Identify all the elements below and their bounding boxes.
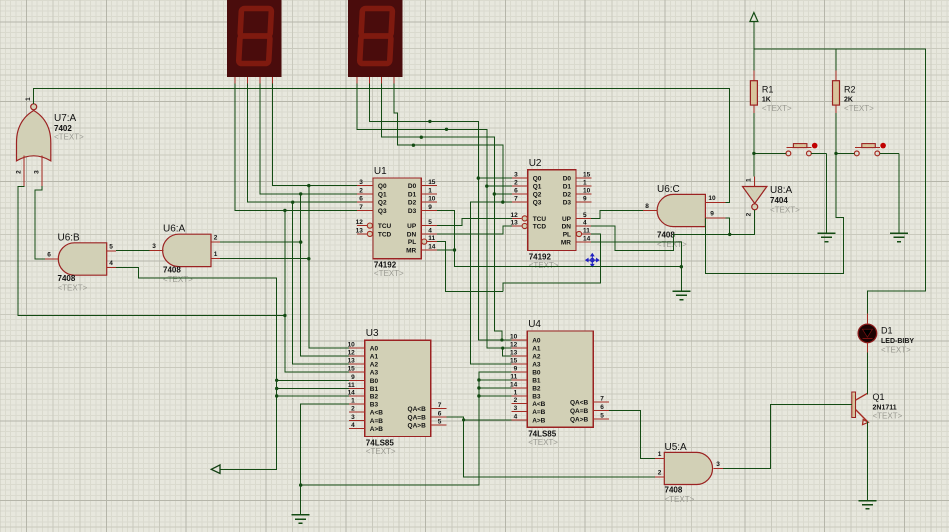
svg-text:A0: A0 [532, 338, 541, 345]
svg-text:U6:C: U6:C [657, 184, 680, 195]
svg-text:B0: B0 [532, 370, 541, 377]
svg-text:2: 2 [746, 212, 753, 216]
svg-text:DN: DN [562, 224, 572, 231]
svg-text:4: 4 [583, 220, 587, 227]
svg-text:1: 1 [351, 398, 355, 405]
wire R1 net to U8:A pin1 [753, 113, 755, 176]
svg-text:A>B: A>B [370, 426, 383, 433]
svg-text:6: 6 [514, 188, 518, 195]
svg-text:13: 13 [510, 220, 518, 227]
svg-text:7408: 7408 [665, 486, 683, 495]
svg-text:UP: UP [407, 223, 417, 230]
wire U6:A pin1 to Q0 net [220, 258, 309, 260]
svg-text:5: 5 [109, 243, 113, 250]
svg-text:4: 4 [514, 413, 518, 420]
svg-text:D1: D1 [881, 326, 893, 336]
AND gate U6:A (7408) [150, 224, 221, 284]
AND gate U6:C (7408) [643, 184, 726, 249]
ground (U3 B3 net) [292, 515, 310, 523]
svg-text:15: 15 [510, 358, 518, 365]
transistor Q1 (2N1711) [852, 353, 903, 501]
svg-text:D3: D3 [408, 208, 417, 215]
wire U1 MR join [437, 249, 455, 251]
svg-text:3: 3 [514, 172, 518, 179]
svg-text:15: 15 [583, 172, 591, 179]
junction dot U6:B out net [0, 0, 1, 1]
svg-text:U7:A: U7:A [54, 113, 77, 124]
svg-text:<TEXT>: <TEXT> [665, 495, 695, 504]
wire U7:A pin3 to U6:B out [35, 186, 45, 259]
svg-text:Q0: Q0 [378, 183, 387, 190]
wire SW2 to ground [880, 152, 899, 154]
svg-text:Q1: Q1 [873, 392, 885, 402]
wire DISP2 p3 to U2 Q2/U4 A0 [382, 84, 502, 341]
wire Q1 branch to U3 A1 [301, 194, 349, 356]
wire ground trunk to U4 B bus [301, 372, 512, 485]
svg-text:4: 4 [351, 422, 355, 429]
svg-text:2: 2 [351, 406, 355, 413]
wire DISP2 p2 to U2 Q0/U4 A2 [369, 84, 511, 341]
svg-text:B2: B2 [532, 386, 541, 393]
svg-text:MR: MR [406, 248, 416, 255]
svg-text:14: 14 [428, 244, 436, 251]
svg-text:1: 1 [746, 178, 753, 182]
7-segment display DISP1 [227, 0, 282, 77]
svg-text:<TEXT>: <TEXT> [54, 133, 84, 142]
counter U2 (74192) [510, 158, 591, 270]
wire DISP1 p3 to U1 Q2 [248, 84, 358, 203]
svg-text:TCU: TCU [533, 216, 547, 223]
svg-text:<TEXT>: <TEXT> [844, 104, 874, 113]
svg-text:A<B: A<B [370, 410, 383, 417]
svg-text:Q2: Q2 [378, 200, 387, 207]
svg-text:QA=B: QA=B [570, 408, 589, 415]
push-button switch SW1 [786, 143, 818, 156]
svg-text:QA>B: QA>B [408, 423, 427, 430]
svg-text:1K: 1K [762, 97, 771, 104]
svg-text:<TEXT>: <TEXT> [762, 104, 792, 113]
svg-text:QA=B: QA=B [408, 414, 427, 421]
svg-text:12: 12 [356, 219, 364, 226]
wire DISP1 p1 to U1 Q0 [272, 84, 357, 186]
svg-text:B3: B3 [532, 394, 541, 401]
svg-text:2N1711: 2N1711 [873, 405, 897, 412]
svg-text:5: 5 [428, 219, 432, 226]
svg-text:9: 9 [583, 196, 587, 203]
svg-text:4: 4 [109, 260, 113, 267]
svg-text:A2: A2 [532, 353, 541, 360]
svg-text:PL: PL [563, 232, 571, 239]
svg-text:7: 7 [438, 402, 442, 409]
wire U2 TCD to U1 DN [437, 226, 512, 234]
7-segment display DISP2 [348, 0, 403, 77]
svg-text:A=B: A=B [532, 409, 545, 416]
wire U2 Q3 row + left ext to U4 A3 [471, 202, 512, 364]
svg-text:1: 1 [214, 251, 218, 258]
wire U3 B0 feed [277, 379, 349, 381]
wire Q0 branch to U3 A0 [309, 186, 349, 348]
display DISP1 pin stubs [235, 77, 272, 84]
svg-text:<TEXT>: <TEXT> [58, 284, 88, 293]
svg-text:D0: D0 [563, 176, 572, 183]
svg-text:LED-BIBY: LED-BIBY [881, 338, 914, 345]
svg-text:A1: A1 [370, 353, 379, 360]
LED D1 (LED-BIBY) [858, 314, 914, 355]
wire VCC to R2 [835, 49, 837, 71]
svg-text:<TEXT>: <TEXT> [163, 275, 193, 284]
wire U2 MR to ground [591, 242, 682, 291]
svg-text:TCD: TCD [533, 224, 547, 231]
svg-text:A0: A0 [370, 345, 379, 352]
svg-text:12: 12 [348, 349, 356, 356]
svg-text:<TEXT>: <TEXT> [873, 412, 903, 421]
svg-text:13: 13 [356, 227, 364, 234]
svg-text:5: 5 [438, 419, 442, 426]
svg-text:8: 8 [645, 203, 649, 210]
svg-text:A>B: A>B [532, 417, 545, 424]
svg-text:11: 11 [510, 374, 517, 381]
junction dots U2 Q pins [477, 176, 505, 203]
svg-text:A3: A3 [370, 370, 379, 377]
svg-text:10: 10 [583, 188, 591, 195]
wire U3 B1 feed [277, 388, 349, 390]
svg-text:14: 14 [510, 382, 518, 389]
svg-text:7408: 7408 [657, 231, 675, 240]
svg-text:11: 11 [428, 235, 435, 242]
wire R2 net down to pin9 column [705, 113, 843, 274]
wire U1 D3+MR to ground trunk [437, 211, 681, 267]
svg-text:<TEXT>: <TEXT> [528, 438, 558, 447]
junction dot trunk [299, 483, 302, 486]
power terminal (VCC arrow) [750, 13, 758, 49]
svg-text:Q2: Q2 [533, 192, 542, 199]
wire U3 QA=B to U5 pin2 [447, 417, 656, 477]
svg-text:3: 3 [716, 461, 720, 468]
svg-text:15: 15 [428, 179, 436, 186]
push-button switch SW2 [854, 143, 886, 156]
svg-text:Q3: Q3 [533, 200, 542, 207]
svg-text:Q1: Q1 [533, 184, 542, 191]
svg-text:2: 2 [359, 187, 363, 194]
svg-text:12: 12 [510, 342, 518, 349]
svg-text:5: 5 [583, 212, 587, 219]
svg-text:7408: 7408 [58, 274, 76, 283]
junction dots U6:A inputs [299, 240, 310, 260]
svg-text:2: 2 [514, 180, 518, 187]
wire U3 B3 to ground [301, 404, 349, 515]
svg-text:6: 6 [600, 404, 604, 411]
wire U2 Q1 pin stub link [487, 185, 512, 187]
svg-text:D1: D1 [408, 191, 417, 198]
svg-text:7: 7 [359, 204, 363, 211]
svg-text:R2: R2 [844, 85, 856, 95]
svg-text:<TEXT>: <TEXT> [366, 447, 396, 456]
svg-text:7: 7 [600, 395, 604, 402]
svg-text:Q3: Q3 [378, 208, 387, 215]
svg-text:Q1: Q1 [378, 191, 387, 198]
wire U2 Q2 pin stub link [494, 193, 512, 195]
wire U6:A pin2 to Q1 net [220, 241, 301, 243]
counter U1 (74192) [356, 166, 437, 278]
wire R1 junction to SW1 [754, 152, 786, 154]
svg-text:7404: 7404 [770, 196, 788, 205]
svg-text:2: 2 [514, 397, 518, 404]
wire DISP1 p4 to U1 Q3 [235, 84, 357, 211]
svg-text:R1: R1 [762, 85, 774, 95]
svg-text:3: 3 [152, 243, 156, 250]
svg-text:1: 1 [428, 187, 432, 194]
resistor R2 2K [833, 71, 875, 114]
svg-text:D3: D3 [563, 200, 572, 207]
wire VCC rail [754, 49, 926, 314]
svg-text:A3: A3 [532, 362, 541, 369]
svg-text:A2: A2 [370, 362, 379, 369]
svg-text:A=B: A=B [370, 418, 383, 425]
resistor R1 1K [750, 71, 792, 114]
svg-text:7408: 7408 [163, 265, 181, 274]
svg-text:U3: U3 [366, 328, 379, 339]
svg-text:6: 6 [438, 410, 442, 417]
junction dot U1 MR [453, 248, 456, 251]
svg-text:12: 12 [510, 212, 518, 219]
svg-text:D2: D2 [563, 192, 572, 199]
wire U6:C pin9 to U8 net [726, 218, 730, 235]
NOR gate U7:A (7402) [16, 96, 85, 186]
svg-text:9: 9 [514, 366, 518, 373]
svg-text:2K: 2K [844, 97, 853, 104]
inverter U8:A (7404) [743, 177, 801, 217]
svg-text:9: 9 [351, 374, 355, 381]
svg-text:3: 3 [33, 170, 40, 174]
wire SW1 to ground [811, 152, 827, 154]
junction dots U1 Q branches [283, 184, 310, 212]
svg-text:1: 1 [658, 451, 662, 458]
svg-text:U1: U1 [374, 166, 387, 177]
svg-text:5: 5 [600, 413, 604, 420]
wire U7:A out to U6:C pin10 (top rail) [34, 89, 730, 203]
svg-text:U2: U2 [529, 158, 542, 169]
display DISP2 pin stubs [357, 77, 394, 84]
wire U4 B1 feed [479, 379, 512, 381]
svg-text:15: 15 [348, 366, 356, 373]
svg-text:QA>B: QA>B [570, 417, 589, 424]
ground (switch SW1) [818, 153, 836, 241]
wire U8:A out to U2 DN [591, 210, 755, 250]
svg-text:MR: MR [561, 239, 571, 246]
svg-text:3: 3 [359, 179, 363, 186]
svg-text:2: 2 [214, 235, 218, 242]
svg-text:2: 2 [658, 469, 662, 476]
svg-text:UP: UP [562, 216, 572, 223]
junction dots U4 B bus [477, 378, 480, 397]
wire VCC to R1 [753, 49, 755, 71]
svg-text:QA<B: QA<B [570, 399, 589, 406]
svg-text:7: 7 [514, 196, 518, 203]
ground (switch SW2) [890, 153, 908, 241]
svg-text:10: 10 [348, 341, 356, 348]
svg-text:B2: B2 [370, 394, 379, 401]
ground (Q1 emitter) [858, 501, 876, 509]
svg-text:10: 10 [428, 196, 436, 203]
svg-text:B3: B3 [370, 402, 379, 409]
junction dot Q3 / left net [283, 314, 286, 317]
wire U2 TCU to U1 UP [437, 218, 512, 225]
svg-text:PL: PL [408, 239, 416, 246]
wire U5:A out to Q1 base [723, 405, 852, 469]
wire branch to U4 A>B [464, 419, 512, 421]
AND gate U6:B (7408) [45, 232, 116, 292]
wire DISP1 p2 to U1 Q1 [260, 84, 357, 194]
svg-text:D0: D0 [408, 183, 417, 190]
wire Q3 branch to U3 A3 [285, 211, 349, 373]
wire U2 PL net [503, 234, 601, 291]
wire U6:C out to U2 UP [591, 211, 643, 219]
svg-text:3: 3 [514, 405, 518, 412]
svg-text:B1: B1 [532, 378, 541, 385]
svg-text:Q0: Q0 [533, 176, 542, 183]
svg-text:13: 13 [348, 358, 356, 365]
wire U4 B2 feed [479, 387, 512, 389]
svg-text:1: 1 [514, 390, 518, 397]
wire U4 A1-A2 jog [503, 348, 512, 356]
svg-text:U8:A: U8:A [770, 185, 793, 196]
comparator U3 (74LS85) [348, 328, 447, 456]
svg-text:13: 13 [510, 349, 518, 356]
junction dot U4 A0 jog [500, 338, 503, 341]
wire R2 junction to SW2 [836, 152, 854, 154]
svg-text:14: 14 [348, 390, 356, 397]
svg-text:A1: A1 [532, 346, 541, 353]
junction dots U3 B bus [275, 379, 278, 398]
svg-text:1: 1 [25, 97, 32, 101]
wire DISP2 p4 to U2 Q3/U4 A3 [394, 84, 503, 203]
svg-text:U6:B: U6:B [58, 232, 81, 243]
svg-text:QA<B: QA<B [408, 406, 427, 413]
svg-text:A<B: A<B [532, 401, 545, 408]
svg-text:2: 2 [16, 170, 23, 174]
wire DISP2 p1 to U2 Q1/U4 A1 [357, 84, 512, 349]
wire U1 PL net [437, 242, 503, 292]
wire U4 QA=B to U5 pin1 [609, 411, 655, 459]
svg-text:U4: U4 [528, 319, 541, 330]
svg-text:11: 11 [348, 382, 355, 389]
svg-text:B0: B0 [370, 378, 379, 385]
arrow terminal (left) [211, 465, 220, 474]
junction dot A>B branch [462, 418, 465, 421]
svg-text:B1: B1 [370, 386, 379, 393]
wire U3 B2 feed [277, 395, 349, 397]
svg-text:4: 4 [428, 227, 432, 234]
svg-text:<TEXT>: <TEXT> [529, 261, 559, 270]
svg-text:6: 6 [47, 252, 51, 259]
svg-text:U6:A: U6:A [163, 224, 186, 235]
AND gate U5:A (7408) [655, 442, 723, 504]
wire U7:A pin2 net down-left [18, 186, 285, 316]
svg-text:6: 6 [359, 196, 363, 203]
junction dot U8 net [728, 233, 731, 236]
wire U6:B pin4 to arrow/U3 B bus [116, 267, 277, 469]
svg-text:14: 14 [583, 235, 591, 242]
svg-text:D1: D1 [563, 184, 572, 191]
wire U4 B3 feed [479, 395, 512, 397]
svg-text:11: 11 [583, 228, 590, 235]
svg-text:D2: D2 [408, 200, 417, 207]
svg-text:10: 10 [708, 195, 716, 202]
junction dot R1/SW1 [752, 152, 755, 155]
wire U6:B pin5 to U6:A out [116, 250, 150, 252]
svg-text:<TEXT>: <TEXT> [770, 206, 800, 215]
svg-text:TCD: TCD [378, 231, 392, 238]
svg-text:<TEXT>: <TEXT> [881, 346, 911, 355]
junction dot gnd trunk [680, 265, 683, 268]
svg-text:1: 1 [583, 180, 587, 187]
stale junction dots (staircase) [412, 120, 449, 147]
svg-text:10: 10 [510, 334, 518, 341]
wire U2 Q0 pin stub link [478, 177, 512, 179]
junction dot U4 A1 jog [501, 347, 504, 350]
wire Q2 branch to U3 A2 [293, 202, 349, 364]
junction dot R2/SW2 [834, 152, 837, 155]
svg-text:9: 9 [710, 210, 714, 217]
ground (U2 MR net) [672, 291, 690, 299]
svg-text:TCU: TCU [378, 223, 392, 230]
comparator U4 (74LS85) [510, 319, 609, 447]
svg-text:<TEXT>: <TEXT> [374, 269, 404, 278]
svg-text:9: 9 [428, 204, 432, 211]
blue origin marker [586, 254, 599, 267]
svg-text:DN: DN [407, 231, 417, 238]
svg-text:3: 3 [351, 414, 355, 421]
svg-text:U5:A: U5:A [665, 442, 688, 453]
